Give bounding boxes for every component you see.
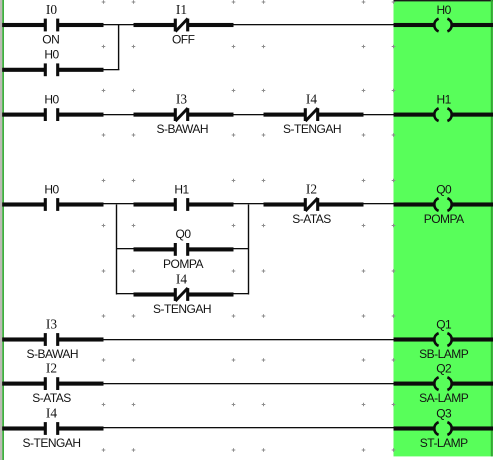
wire into coil H1 — [394, 113, 434, 117]
svg-text:SA-LAMP: SA-LAMP — [419, 391, 469, 405]
wire H1 to boundary — [187, 202, 233, 206]
wire thin link — [104, 114, 134, 115]
svg-text:H0: H0 — [44, 182, 59, 196]
wire I4 branch to boundary — [187, 292, 233, 296]
output column top border — [394, 0, 494, 1]
contact H0 (NO) — [44, 108, 60, 121]
svg-text:S-ATAS: S-ATAS — [32, 391, 71, 405]
contact H1 (NO) — [174, 198, 190, 211]
wire thin link to output column rung6 — [104, 427, 394, 428]
contact I4 (NC) branch — [174, 288, 190, 301]
svg-text:Q0: Q0 — [175, 227, 191, 241]
svg-text:S-BAWAH: S-BAWAH — [156, 122, 208, 136]
wire boundary to contact I1 — [134, 23, 176, 27]
wire into coil Q3 — [394, 426, 434, 430]
svg-text:Q0: Q0 — [436, 182, 452, 196]
left window edge strip — [0, 0, 2, 460]
left power rail — [2, 0, 4, 460]
svg-text:I3: I3 — [176, 91, 187, 106]
wire thin link — [104, 24, 134, 25]
wire I1 to cell boundary — [187, 23, 233, 27]
wire H0 to boundary rung3 — [57, 202, 103, 206]
wire coil H0 to rail — [452, 23, 493, 27]
output column right border — [491, 0, 493, 456]
wire rail to contact I2 rung5 — [2, 382, 46, 386]
svg-text:S-BAWAH: S-BAWAH — [26, 347, 78, 361]
wire rail to contact I0 — [2, 23, 46, 27]
svg-text:H0: H0 — [437, 3, 452, 17]
wire into coil Q2 — [394, 382, 434, 386]
wire I2 to boundary — [317, 202, 363, 206]
wire boundary to contact H1 — [134, 202, 176, 206]
contact I4 (NO) rung6 — [44, 422, 60, 435]
coil H1 — [434, 108, 451, 121]
svg-text:I1: I1 — [176, 2, 187, 17]
wire I4 to boundary rung6 — [57, 426, 103, 430]
contact I3 (NC) — [174, 108, 190, 121]
wire coil H1 to rail — [452, 113, 493, 117]
contact Q0 (NO) — [174, 243, 190, 256]
contact H0 (NO) rung3 — [44, 198, 60, 211]
svg-text:H0: H0 — [44, 92, 59, 106]
contact I1 (NC) — [174, 19, 190, 32]
wire thin link middle — [234, 203, 264, 204]
wire junction to boundary I4 branch — [117, 293, 134, 294]
wire rail to contact H0 — [2, 113, 46, 117]
svg-text:ON: ON — [42, 33, 59, 47]
svg-text:Q3: Q3 — [436, 406, 452, 420]
wire I4 to boundary — [317, 113, 363, 117]
svg-text:S-ATAS: S-ATAS — [292, 212, 331, 226]
node branch left junction — [116, 205, 117, 295]
svg-text:H0: H0 — [44, 48, 59, 62]
contact I2 (NO) rung5 — [44, 377, 60, 390]
svg-text:Q2: Q2 — [436, 361, 452, 375]
svg-text:S-TENGAH: S-TENGAH — [22, 436, 80, 450]
wire I2 to boundary rung5 — [57, 382, 103, 386]
wire coil Q0 to rail — [452, 202, 493, 206]
svg-text:S-TENGAH: S-TENGAH — [153, 302, 211, 316]
wire rail to contact I3 rung4 — [2, 337, 46, 341]
wire thin link rung3 — [104, 203, 134, 204]
contact H0 (NO) branch — [44, 63, 60, 76]
wire into coil Q0 — [394, 202, 434, 206]
wire thin link to junction — [104, 69, 120, 70]
node branch junction — [118, 25, 119, 70]
svg-text:I4: I4 — [176, 271, 187, 286]
node branch right junction — [248, 205, 249, 295]
contact I2 (NC) — [304, 198, 320, 211]
svg-text:OFF: OFF — [172, 33, 195, 47]
wire thin link to output column rung3 — [364, 203, 394, 204]
svg-text:H1: H1 — [174, 182, 189, 196]
wire rail to contact H0 rung3 — [2, 202, 46, 206]
wire boundary to contact I4 branch — [134, 292, 176, 296]
wire H0 to boundary — [57, 113, 103, 117]
wire boundary to contact Q0 — [134, 247, 176, 251]
contact I3 (NO) rung4 — [44, 333, 60, 346]
wire thin link to right junction I4 — [234, 293, 249, 294]
wire rail to contact H0 branch — [2, 68, 46, 72]
svg-text:I0: I0 — [46, 2, 57, 17]
svg-text:I4: I4 — [306, 91, 317, 106]
svg-text:I2: I2 — [46, 360, 57, 375]
wire I3 to boundary rung4 — [57, 337, 103, 341]
contact I0 (NO) — [44, 19, 60, 32]
svg-text:SB-LAMP: SB-LAMP — [419, 347, 469, 361]
output column green highlight — [394, 0, 494, 456]
svg-text:POMPA: POMPA — [424, 212, 464, 226]
svg-text:I2: I2 — [306, 181, 317, 196]
svg-text:ST-LAMP: ST-LAMP — [420, 436, 468, 450]
wire thin link to output column — [234, 24, 394, 25]
wire thin link to output column rung5 — [104, 383, 394, 384]
svg-text:I3: I3 — [46, 316, 57, 331]
wire I3 to boundary — [187, 113, 233, 117]
coil Q2 — [434, 377, 451, 390]
wire I0 to cell boundary — [57, 23, 103, 27]
svg-text:S-TENGAH: S-TENGAH — [283, 122, 341, 136]
svg-text:I4: I4 — [46, 405, 57, 420]
wire rail to contact I4 rung6 — [2, 426, 46, 430]
wire Q0 to boundary — [187, 247, 233, 251]
wire into coil Q1 — [394, 337, 434, 341]
wire boundary to contact I4 — [264, 113, 306, 117]
wire thin link to output column rung4 — [104, 339, 394, 340]
wire boundary to contact I2 — [264, 202, 306, 206]
coil Q0 — [434, 198, 451, 211]
wire boundary to contact I3 — [134, 113, 176, 117]
contact I4 (NC) — [304, 108, 320, 121]
coil Q1 — [434, 333, 451, 346]
coil Q3 — [434, 422, 451, 435]
wire junction to boundary Q0 branch — [117, 248, 134, 249]
wire thin link to output column — [364, 114, 394, 115]
wire into coil H0 — [394, 23, 434, 27]
svg-text:Q1: Q1 — [436, 317, 452, 331]
wire coil Q1 to rail — [452, 337, 493, 341]
wire coil Q2 to rail — [452, 382, 493, 386]
wire thin link — [234, 114, 264, 115]
wire coil Q3 to rail — [452, 426, 493, 430]
wire H0 branch to boundary — [57, 68, 103, 72]
wire thin link to right junction — [234, 248, 249, 249]
svg-text:POMPA: POMPA — [163, 257, 203, 271]
coil H0 — [434, 19, 451, 32]
svg-text:H1: H1 — [437, 92, 452, 106]
